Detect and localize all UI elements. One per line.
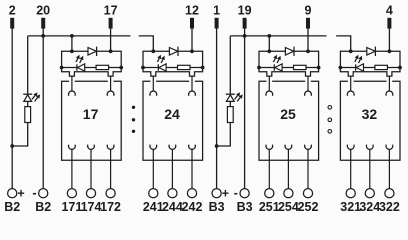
svg-text:B2: B2 xyxy=(4,200,20,214)
svg-text:-: - xyxy=(32,186,36,200)
separator dots (filled) between channel 1 and 2 xyxy=(132,106,135,133)
coil socket cups ch1 xyxy=(69,91,115,96)
terminal 241 circle xyxy=(149,189,158,198)
svg-text:20: 20 xyxy=(36,4,50,18)
junction box top / terminal wire ch2 xyxy=(190,49,194,53)
coil pin wires ch2 xyxy=(153,76,192,91)
terminal 252 circle xyxy=(303,189,312,198)
svg-text:25: 25 xyxy=(280,106,296,122)
suppressor module box ch2 xyxy=(143,51,203,76)
svg-text:4: 4 xyxy=(386,4,393,18)
LED/resistor row wire ch4 xyxy=(340,67,400,69)
contact socket cups ch4 xyxy=(347,145,393,150)
LED/resistor row wire ch1 xyxy=(62,67,122,69)
terminal 171 circle xyxy=(67,189,76,198)
LED HB3 triangle xyxy=(226,95,234,102)
diode V2 triangle xyxy=(169,48,177,56)
relay K2 box (24) xyxy=(143,81,203,160)
junction branch / B3+ wire xyxy=(215,144,219,148)
terminal 17 xyxy=(109,18,113,29)
terminal 254 circle xyxy=(284,189,293,198)
bus wire group 1 (from terminal 20) xyxy=(28,35,131,37)
coil socket cups ch4 xyxy=(347,91,393,96)
terminal 324 circle xyxy=(365,189,374,198)
suppressor module box ch1 xyxy=(62,51,122,76)
relay K3 box (25) xyxy=(259,81,319,160)
terminal 322 circle xyxy=(385,189,394,198)
diode V2 cathode bar xyxy=(177,47,179,56)
svg-text:9: 9 xyxy=(305,4,312,18)
svg-text:252: 252 xyxy=(298,200,319,214)
svg-text:B2: B2 xyxy=(35,200,51,214)
junction bus / terminal 19 wire xyxy=(243,34,247,38)
junction row left ch1 xyxy=(60,66,64,70)
svg-text:251: 251 xyxy=(259,200,280,214)
resistor R1 xyxy=(96,65,109,69)
LED D1 arrows xyxy=(76,58,78,62)
LED D3 arrows xyxy=(273,58,275,62)
terminal 172 circle xyxy=(106,189,115,198)
svg-text:242: 242 xyxy=(182,200,203,214)
wire terminal 1 to B3+ xyxy=(216,29,218,189)
resistor R2 xyxy=(178,65,191,69)
LED HB2 cathode bar xyxy=(23,93,32,95)
junction row right ch3 xyxy=(317,66,321,70)
svg-text:174: 174 xyxy=(81,200,102,214)
diode V4 cathode bar xyxy=(374,47,376,56)
junction box top / terminal wire ch3 xyxy=(306,49,310,53)
LED D2 arrows xyxy=(157,58,159,62)
LED D3 cathode bar xyxy=(273,64,275,70)
terminal 12 xyxy=(190,18,194,29)
svg-text:324: 324 xyxy=(359,200,380,214)
LED D4 triangle xyxy=(356,64,363,71)
junction row left ch2 xyxy=(141,66,145,70)
LED D4 cathode bar xyxy=(355,64,357,70)
contact socket cups ch2 xyxy=(150,145,196,150)
terminal 9 xyxy=(306,18,310,29)
LED/resistor row wire ch2 xyxy=(143,67,203,69)
svg-text:+: + xyxy=(222,187,229,201)
LED/resistor row wire ch3 xyxy=(259,67,319,69)
contact socket cups ch1 xyxy=(69,145,115,150)
contact wires to terminals ch1 xyxy=(72,149,111,188)
terminal 174 circle xyxy=(86,189,95,198)
terminal 244 circle xyxy=(168,189,177,198)
LED HB3 arrows xyxy=(235,96,238,100)
junction bus / terminal 20 wire xyxy=(41,34,45,38)
wire terminal 4 to suppressor box ch4 xyxy=(388,29,390,52)
terminal 242 circle xyxy=(187,189,196,198)
bridge wire group1 to channel 2 xyxy=(139,36,154,51)
wire bus drop to channel 3 xyxy=(268,36,270,51)
diode V3 cathode bar xyxy=(293,47,295,56)
contact wires to terminals ch2 xyxy=(153,149,192,188)
bridge wire group2 to channel 4 xyxy=(336,36,351,51)
suppressor module box ch4 xyxy=(340,51,400,76)
contact wires to terminals ch3 xyxy=(269,149,308,188)
junction box top / terminal wire ch4 xyxy=(388,49,392,53)
wire LED branch group 2 xyxy=(217,36,231,146)
LED D4 arrows xyxy=(355,58,357,62)
svg-text:19: 19 xyxy=(238,4,252,18)
junction row right ch4 xyxy=(398,66,402,70)
contact wires to terminals ch4 xyxy=(351,149,390,188)
svg-text:17: 17 xyxy=(83,106,99,122)
svg-text:1: 1 xyxy=(213,4,220,18)
svg-text:12: 12 xyxy=(185,4,199,18)
contact socket cups ch3 xyxy=(266,145,312,150)
wire terminal 19 to B3- xyxy=(244,29,246,189)
svg-text:322: 322 xyxy=(379,200,400,214)
terminal 19 xyxy=(243,18,247,29)
junction box top / drop ch3 xyxy=(267,49,271,53)
relay K4 box (32) xyxy=(340,81,400,160)
resistor R4 xyxy=(375,65,388,69)
junction branch / B2+ wire xyxy=(10,144,14,148)
wire terminal 12 to suppressor box ch2 xyxy=(191,29,193,52)
resistor R-B3 xyxy=(227,107,233,123)
terminal B3 circle xyxy=(212,189,221,198)
resistor R3 xyxy=(294,65,307,69)
junction box top / drop ch4 xyxy=(349,49,353,53)
junction row right ch1 xyxy=(119,66,123,70)
junction box top / drop ch1 xyxy=(70,49,74,53)
junction bus / channel 1 drop xyxy=(70,34,74,38)
wire bus drop to channel 1 xyxy=(71,36,73,51)
svg-text:321: 321 xyxy=(340,200,361,214)
svg-text:24: 24 xyxy=(164,106,180,122)
LED D3 triangle xyxy=(275,64,282,71)
svg-text:B3: B3 xyxy=(209,200,225,214)
junction bus / channel 3 drop xyxy=(267,34,271,38)
terminal B2 circle xyxy=(39,189,48,198)
wire terminal 17 to suppressor box ch1 xyxy=(110,29,112,52)
terminal B3 circle xyxy=(240,189,249,198)
svg-text:2: 2 xyxy=(9,4,16,18)
svg-text:17: 17 xyxy=(104,4,118,18)
junction row left ch3 xyxy=(257,66,261,70)
LED D2 triangle xyxy=(159,64,166,71)
LED D1 cathode bar xyxy=(76,64,78,70)
LED HB2 arrows xyxy=(32,96,35,100)
svg-text:32: 32 xyxy=(362,106,378,122)
terminal 251 circle xyxy=(265,189,274,198)
LED HB3 cathode bar xyxy=(226,93,235,95)
svg-text:+: + xyxy=(17,187,24,201)
junction box top / terminal wire ch1 xyxy=(109,49,113,53)
coil socket cups ch3 xyxy=(266,91,312,96)
junction box top / drop ch2 xyxy=(151,49,155,53)
coil socket cups ch2 xyxy=(150,91,196,96)
LED D2 cathode bar xyxy=(157,64,159,70)
suppressor module box ch3 xyxy=(259,51,319,76)
svg-text:B3: B3 xyxy=(237,200,253,214)
svg-text:241: 241 xyxy=(143,200,164,214)
terminal B2 circle xyxy=(8,189,17,198)
relay K1 box (17) xyxy=(62,81,122,160)
junction row right ch2 xyxy=(201,66,205,70)
coil pin wires ch3 xyxy=(269,76,308,91)
diode V1 triangle xyxy=(88,48,96,56)
terminal 321 circle xyxy=(346,189,355,198)
wire terminal 20 to B2- xyxy=(42,29,44,189)
LED D1 triangle xyxy=(78,64,85,71)
svg-text:-: - xyxy=(234,186,238,200)
LED HB2 triangle xyxy=(24,95,32,102)
diode V1 cathode bar xyxy=(96,47,98,56)
wire terminal 2 to B2+ xyxy=(11,29,13,189)
junction row left ch4 xyxy=(339,66,343,70)
separator dots (hollow) between channel 3 and 4 xyxy=(328,106,332,134)
terminal 2 xyxy=(10,18,14,29)
svg-text:244: 244 xyxy=(162,200,183,214)
terminal 4 xyxy=(387,18,391,29)
coil pin wires ch1 xyxy=(72,76,111,91)
diode V4 triangle xyxy=(367,48,375,56)
svg-text:171: 171 xyxy=(61,200,82,214)
terminal 1 xyxy=(215,18,219,29)
coil pin wires ch4 xyxy=(351,76,390,91)
svg-text:172: 172 xyxy=(100,200,121,214)
terminal 20 xyxy=(41,18,45,29)
diode V3 triangle xyxy=(285,48,293,56)
wire terminal 9 to suppressor box ch3 xyxy=(307,29,309,52)
resistor R-B2 xyxy=(25,107,31,123)
bus wire group 2 (from terminal 19) xyxy=(230,35,326,37)
wire LED branch group 1 xyxy=(12,36,28,146)
svg-text:254: 254 xyxy=(278,200,299,214)
